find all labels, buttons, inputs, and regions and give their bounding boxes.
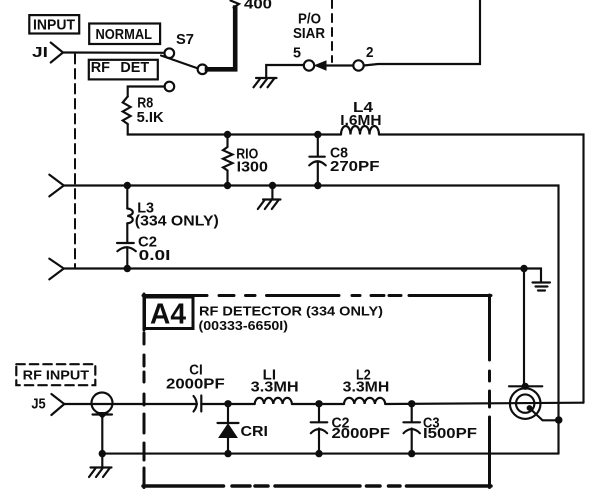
wire to earth ground <box>524 269 541 283</box>
svg-text:3.3MH: 3.3MH <box>343 379 390 395</box>
capacitor C2 (detector) <box>311 404 390 454</box>
svg-text:(00333-6650I): (00333-6650I) <box>199 318 289 333</box>
node C8 bottom <box>314 182 321 189</box>
assembly box A4 top border <box>143 294 491 297</box>
svg-text:I300: I300 <box>237 160 268 176</box>
label box INPUT <box>29 15 79 33</box>
diode CR1 <box>218 404 269 454</box>
wire terminal 2 to top edge <box>364 0 480 66</box>
svg-text:S7: S7 <box>176 32 194 48</box>
capacitor C8 <box>309 135 379 186</box>
wire ground tap <box>271 186 273 200</box>
wire coax center pin diagonal <box>530 409 556 421</box>
resistor R10 <box>223 135 268 186</box>
assembly box A4 bottom border <box>143 484 491 488</box>
connector J1 arrow <box>51 43 63 63</box>
svg-text:400: 400 <box>244 0 272 13</box>
node at right end of lower bus <box>520 265 527 272</box>
wire arrow to terminal 2 <box>325 64 353 66</box>
node C2 top <box>315 400 322 407</box>
node on vertical at diagonal <box>555 416 563 424</box>
capacitor C2 (input filter) <box>117 234 170 268</box>
chassis ground (middle) <box>258 200 281 210</box>
earth ground <box>533 283 551 291</box>
node CR1 top <box>224 400 231 407</box>
chassis ground (top) <box>254 78 277 87</box>
wire middle bus <box>64 186 559 454</box>
svg-text:5.IK: 5.IK <box>137 110 165 126</box>
node C2 bottom <box>315 450 322 457</box>
svg-text:I500PF: I500PF <box>423 426 477 442</box>
svg-text:RF INPUT: RF INPUT <box>23 368 89 383</box>
node C3 top <box>408 400 415 407</box>
wire lower bus <box>64 267 524 269</box>
node R10 bottom <box>224 182 231 189</box>
resistor 400 (partial, top) <box>231 1 240 8</box>
svg-text:SIAR: SIAR <box>293 26 325 42</box>
node C2 bottom <box>124 265 131 272</box>
svg-text:DET: DET <box>120 60 149 76</box>
svg-text:P/O: P/O <box>298 11 321 27</box>
node at coax top bar <box>522 383 529 390</box>
svg-text:2000PF: 2000PF <box>166 376 225 392</box>
wire J5 shield to ground bus <box>101 417 103 454</box>
node CR1 bottom <box>224 450 231 457</box>
chassis ground (J5) <box>89 468 112 478</box>
svg-text:CRI: CRI <box>241 424 269 440</box>
svg-text:RF: RF <box>91 60 110 76</box>
wire node to L4 <box>228 133 342 135</box>
inductor L4 <box>340 100 381 135</box>
wire J1 to S7 <box>63 51 165 53</box>
svg-text:5: 5 <box>293 46 301 62</box>
thick wire switch pole to meter resistor <box>207 8 235 70</box>
dashed boundary line at J1 <box>74 54 76 268</box>
wire L1 to C2 node <box>292 403 344 405</box>
svg-text:JI: JI <box>32 45 48 61</box>
svg-text:RF DETECTOR (334 ONLY): RF DETECTOR (334 ONLY) <box>199 304 383 319</box>
inductor L2 <box>343 367 390 404</box>
connector J5 arrow <box>51 394 64 415</box>
svg-text:NORMAL: NORMAL <box>96 27 153 43</box>
assembly label A4 <box>145 297 194 331</box>
resistor R8 <box>123 96 164 126</box>
assembly box A4 right border <box>488 295 491 488</box>
switch S7 <box>161 32 207 91</box>
capacitor C3 <box>403 404 477 454</box>
node J5 shield <box>99 450 106 457</box>
svg-text:J5: J5 <box>31 397 45 413</box>
node ground tap <box>269 182 276 189</box>
label box NORMAL <box>89 24 160 45</box>
node C3 bottom <box>408 450 415 457</box>
net label P/O S1AR <box>293 11 325 42</box>
wire node down to output connector top <box>523 269 525 388</box>
svg-text:3.3MH: 3.3MH <box>251 379 299 395</box>
node at R10 top <box>224 131 231 138</box>
wire RF DET contact to R8 <box>128 87 165 97</box>
terminal 5 of S1AR <box>293 46 314 71</box>
terminal 2 of S1AR <box>353 45 373 71</box>
label box RF INPUT (dashed) <box>16 364 95 385</box>
coax jack J5 <box>92 393 113 419</box>
connector arrow (middle bus) <box>49 175 64 197</box>
svg-text:270PF: 270PF <box>330 159 380 175</box>
inductor L1 <box>251 367 299 404</box>
capacitor C1 <box>166 362 225 411</box>
dashed boundary line at S1AR <box>331 0 333 62</box>
svg-text:INPUT: INPUT <box>33 18 75 34</box>
wire R8 to node <box>128 124 228 135</box>
connector arrow (lower bus) <box>49 259 64 280</box>
wire L2 to C3 node and output <box>385 403 583 404</box>
node L3 top <box>124 182 131 189</box>
wire J5 to C1 <box>64 403 197 405</box>
svg-text:2000PF: 2000PF <box>332 426 391 442</box>
coax output connector <box>509 386 542 419</box>
wire L4 to right edge down to output connector <box>379 135 584 403</box>
ground bus inside A4 <box>102 453 558 455</box>
inductor L3 <box>127 186 219 243</box>
wire C1 to node <box>201 403 254 405</box>
label box RF DET <box>89 60 158 80</box>
wire terminal 5 to ground <box>266 65 304 78</box>
svg-text:(334 ONLY): (334 ONLY) <box>135 214 219 230</box>
assembly box A4 left border <box>143 294 146 488</box>
node at C8 top <box>314 131 321 138</box>
svg-text:0.0I: 0.0I <box>139 248 171 264</box>
wiper arrow <box>315 61 326 70</box>
svg-text:A4: A4 <box>150 299 186 331</box>
svg-text:2: 2 <box>366 45 374 61</box>
wire to chassis ground <box>101 454 103 467</box>
